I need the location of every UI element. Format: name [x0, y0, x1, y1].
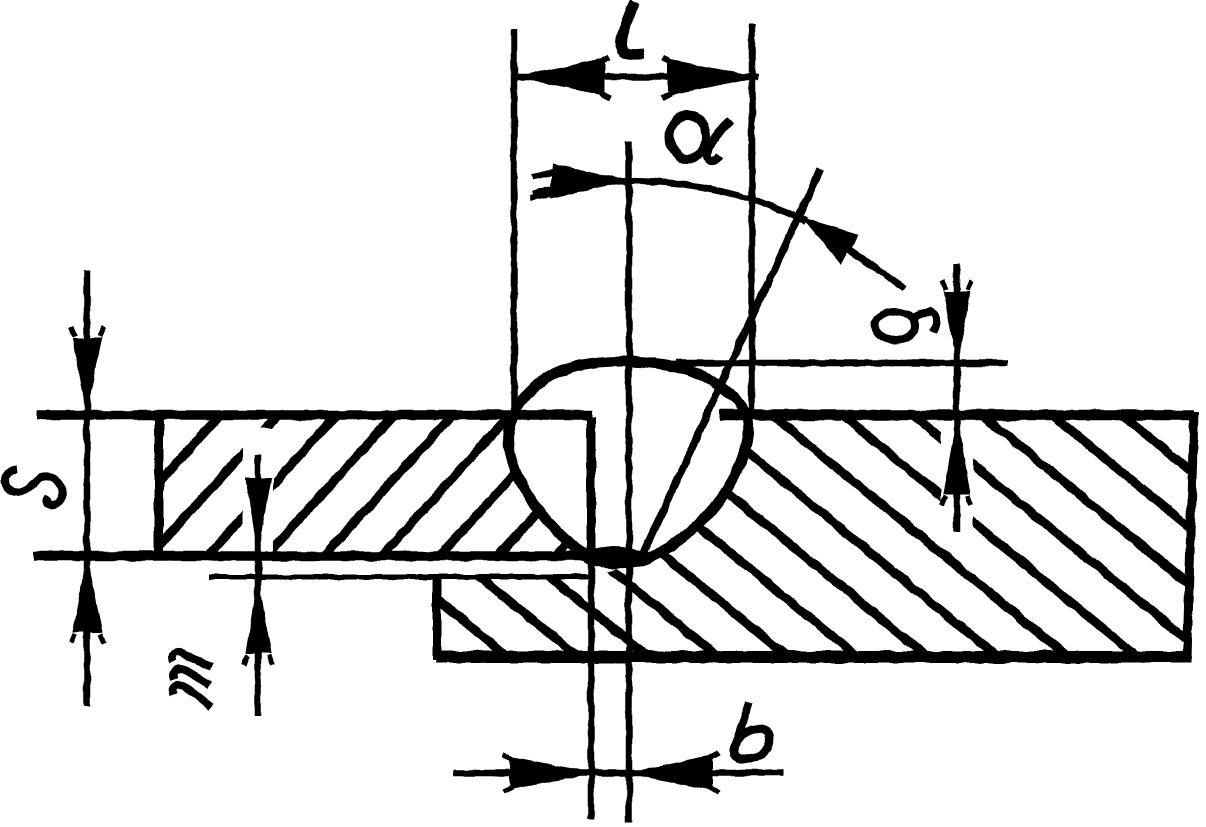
S bottom arrow	[71, 557, 104, 643]
left plate left edge	[155, 412, 164, 558]
dimension b line	[454, 770, 784, 777]
alpha arrow at center line	[530, 164, 629, 198]
right plate top edge	[720, 410, 1194, 421]
b left arrow	[503, 755, 594, 792]
label m	[172, 652, 212, 707]
angle alpha arc	[533, 181, 806, 221]
bevel slant line	[641, 170, 820, 558]
dimension l left arrow	[515, 58, 611, 98]
dimension l extension right	[749, 24, 756, 415]
q bottom arrow	[942, 418, 971, 505]
right plate step left edge	[433, 575, 442, 660]
label alpha	[670, 115, 731, 161]
m bottom arrow	[244, 579, 273, 664]
dimension q level line	[676, 360, 1008, 367]
b right arrow	[628, 753, 719, 793]
dimension S line	[84, 270, 91, 706]
m top arrow	[246, 478, 271, 552]
dimension l extension left	[511, 29, 518, 418]
left plate top edge	[37, 410, 592, 420]
S top arrow	[71, 327, 104, 413]
label q	[875, 311, 936, 340]
right plate step ledge	[209, 575, 592, 580]
label l	[621, 2, 643, 55]
alpha arrow at slant line	[804, 219, 905, 289]
dimension l line	[514, 74, 758, 81]
right plate right edge	[1187, 412, 1194, 659]
hatch gap around q arrow	[941, 420, 973, 536]
weld center line	[626, 141, 633, 822]
hatch gap around m arrow	[243, 428, 273, 552]
weld root blob	[581, 546, 645, 568]
left plate right edge at weld root	[587, 417, 596, 556]
label b	[734, 702, 770, 759]
dimension m line	[255, 455, 262, 717]
left plate hatching	[30, 412, 687, 560]
extension line below root (left)	[588, 556, 595, 820]
label S	[5, 469, 63, 505]
weld bead W	[508, 361, 748, 563]
right plate bottom edge	[436, 651, 1191, 663]
right plate hatching	[54, 400, 1206, 662]
dimension q line	[954, 263, 961, 532]
dimension l right arrow	[661, 58, 757, 98]
q top arrow	[943, 281, 972, 366]
left plate bottom edge	[34, 551, 594, 561]
